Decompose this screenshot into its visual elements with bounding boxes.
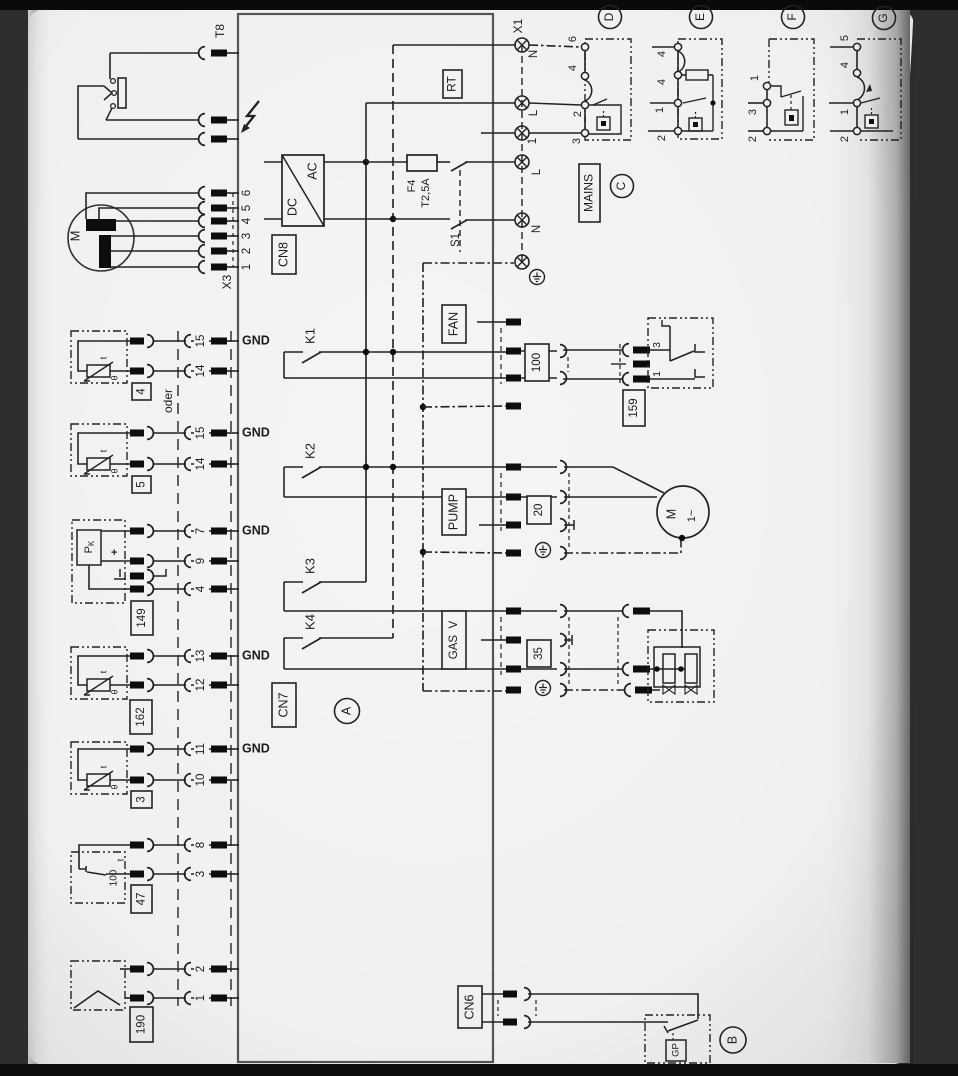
svg-text:2: 2 (241, 248, 253, 254)
pin number bg 2 (194, 960, 209, 978)
plug socket arc row 12 (147, 679, 153, 692)
switch S1 blade L pole (451, 162, 467, 171)
NTC resistor item 3 (87, 774, 110, 786)
board socket arc row 2 (185, 963, 191, 976)
svg-text:1: 1 (749, 75, 761, 81)
NTC diagonal item 162 (84, 676, 113, 695)
fan conn2 pin a (633, 347, 650, 354)
left harness dashed line 2 (230, 331, 232, 1006)
X3 row 4 pin (211, 218, 227, 225)
stub to board row 2 (227, 968, 239, 970)
connector pin plug row 4 (130, 586, 144, 593)
connector pin plug row 7 (130, 528, 144, 535)
connector pin plug row 11 (130, 746, 144, 753)
item label box 5 (132, 476, 151, 493)
svg-text:15: 15 (195, 427, 207, 440)
wire to pin row 15 (191, 432, 211, 434)
earth tap GAS corner (423, 690, 506, 692)
svg-text:C: C (614, 181, 628, 190)
X3 row 3 stub to board (227, 235, 239, 237)
CN6 connector label (458, 986, 482, 1028)
E blade (683, 98, 706, 103)
harness wire row 12 (153, 684, 186, 686)
relay K3 contact line (319, 581, 366, 583)
svg-text:1: 1 (651, 371, 663, 377)
stub to board row 14 (227, 370, 239, 372)
gas pin3 (506, 666, 521, 673)
sensor dash-dot box item 5 (71, 424, 127, 476)
X3 row 1 pin (211, 264, 227, 271)
board socket arc row 1 (185, 992, 191, 1005)
electrode symbol (74, 991, 120, 1008)
gas valve coil 1 (663, 654, 675, 683)
svg-text:GND: GND (242, 523, 270, 537)
board socket arc row 8 (185, 839, 191, 852)
fan pin4 (506, 403, 521, 410)
svg-text:S1: S1 (450, 233, 462, 247)
pin number bg 14 (194, 455, 209, 473)
board pin row 2 (211, 966, 227, 973)
pump motor circle (657, 486, 709, 538)
plug socket arc row 14 (147, 458, 153, 471)
G terminal 2 (853, 127, 860, 134)
board socket arc row 15 (185, 335, 191, 348)
sensor wire bottom item 4 (110, 370, 130, 372)
fan wire b (563, 378, 623, 380)
connector pin plug row 8 (130, 842, 144, 849)
fan conn2 arc b (623, 373, 629, 386)
sensor wire top item 4 (78, 341, 130, 371)
pin number bg 14 (194, 362, 209, 380)
sensor wire top item 162 (78, 656, 130, 685)
stat 47 wire bottom (106, 873, 130, 875)
relay K3 output line (284, 610, 520, 612)
wire to pin row 3 (191, 873, 211, 875)
G terminal 5 (853, 43, 860, 50)
stub to board row 1 (227, 997, 239, 999)
earth symbol at X1 (530, 270, 545, 285)
board socket arc row 10 (185, 774, 191, 787)
pump stub3 end (564, 520, 574, 530)
wire to pin row 14 (191, 370, 211, 372)
svg-text:X1: X1 (511, 18, 525, 33)
E junction dot (710, 100, 715, 105)
fan harness dashes (567, 357, 569, 372)
board pin row 12 (211, 682, 227, 689)
svg-text:E: E (693, 13, 707, 21)
board pin row 13 (211, 653, 227, 660)
plug socket arc row 3 (147, 868, 153, 881)
F wire t2-t3 (766, 106, 768, 128)
fan pin1 (506, 319, 521, 326)
svg-text:10: 10 (195, 774, 207, 787)
E wire stub t4 (648, 130, 674, 132)
wire gas pin1 (521, 610, 557, 612)
board socket arc row 13 (185, 650, 191, 663)
gas feed wire (650, 611, 682, 648)
connector pin plug row 12 (130, 682, 144, 689)
G bottom wire (861, 130, 893, 132)
plug socket arc row 7 (147, 525, 153, 538)
pump wire L (564, 467, 664, 493)
stub to board row 3 (227, 873, 239, 875)
relay K4 blade (302, 638, 321, 649)
connector pin plug row 14 (130, 368, 144, 375)
stub to board row 10 (227, 779, 239, 781)
GP dash-dot box (645, 1015, 710, 1063)
wire N row to circuit D dash-dot (529, 45, 581, 47)
connector pin plug row 14 (130, 461, 144, 468)
harness wire row 4 (153, 588, 186, 590)
relay K4 left vertical (283, 638, 285, 669)
GP blade (668, 1020, 698, 1031)
wire to pin row 13 (191, 655, 211, 657)
gas conn2 arc4 (625, 684, 631, 697)
svg-text:100: 100 (531, 353, 543, 372)
pump socket2 (560, 491, 566, 504)
svg-text:RT: RT (445, 75, 459, 91)
gas socket3 (560, 663, 566, 676)
harness wire row 15 (153, 340, 186, 342)
gas conn2 pin4 (635, 687, 652, 694)
fan wire a (563, 349, 623, 351)
controller board A outline (238, 14, 493, 1062)
wire pin2 to socket (521, 350, 557, 352)
svg-text:K3: K3 (302, 558, 317, 574)
plug socket arc row 15 (147, 335, 153, 348)
fan conn2 pin mid (633, 361, 650, 368)
pin number bg 11 (194, 740, 209, 758)
electrode wire row1 (125, 997, 130, 999)
circled C (611, 175, 634, 198)
board pin row 4 (211, 586, 227, 593)
svg-text:4: 4 (656, 79, 668, 85)
PK wire row7 (101, 530, 130, 532)
svg-text:3: 3 (195, 871, 207, 877)
svg-text:7: 7 (195, 528, 207, 534)
fan conn2 pin b (633, 376, 650, 383)
wire to pin row 9 (191, 560, 211, 562)
gas valve dot 2 (678, 666, 684, 672)
fan conn2 mid stub (611, 363, 626, 365)
board pin row 15 (211, 338, 227, 345)
svg-text:1: 1 (241, 264, 253, 270)
wire to pin row 12 (191, 684, 211, 686)
X3 row 1 stub to board (227, 266, 239, 268)
E wire t2-t3 (677, 78, 679, 100)
relay K2 left vertical (283, 467, 285, 497)
plug socket arc row 13 (147, 650, 153, 663)
board socket arc row 7 (185, 525, 191, 538)
stub to board row 7 (227, 530, 239, 532)
junction dot L (363, 159, 369, 165)
svg-text:DC: DC (285, 198, 299, 216)
relay K2 feed line (284, 466, 303, 468)
relay K1 feed line (284, 351, 303, 353)
sensor dash-dot box item 162 (71, 647, 127, 699)
switch S1 blade N pole (451, 220, 467, 229)
cn6 socket1 (524, 988, 530, 1001)
circled B (720, 1027, 746, 1053)
fan connector dashes (500, 328, 502, 384)
motor wire 3 (111, 235, 198, 237)
F wire t1-t2 (766, 90, 768, 100)
X3 row 5 socket arc (199, 202, 205, 215)
wire gas pin3 (521, 668, 557, 670)
gas pin2 (506, 637, 521, 644)
D terminal 3 (581, 129, 588, 136)
F bottom wire (771, 130, 803, 132)
svg-text:1~: 1~ (686, 510, 698, 523)
pin number bg 15 (194, 424, 209, 442)
wire converter to N junction (324, 218, 393, 220)
spark wire2 (78, 138, 198, 140)
fuse F4 body (407, 155, 437, 171)
pin number bg 3 (194, 865, 209, 883)
connector pin plug row 1 (130, 995, 144, 1002)
harness wire row 1 (153, 997, 186, 999)
D anticipator box (597, 111, 610, 130)
svg-text:2: 2 (572, 111, 584, 117)
K2 junction N dot (390, 464, 396, 470)
svg-text:13: 13 (195, 650, 207, 663)
svg-text:F4: F4 (406, 180, 418, 193)
board pin row 8 (211, 842, 227, 849)
K2 junction L dot (363, 464, 369, 470)
harness wire row 8 (153, 844, 186, 846)
pin number bg 4 (194, 580, 209, 598)
item label box 47 (131, 885, 152, 913)
item label box 3 (131, 791, 152, 808)
relay K3 feed line (284, 581, 303, 583)
switch body bar (118, 78, 126, 108)
T8 stub to board (227, 52, 239, 54)
board socket arc row 14 (185, 365, 191, 378)
G wire t1-t2 (856, 50, 858, 70)
motor wire 1 (111, 266, 198, 268)
sensor 47 dash-dot box (71, 852, 125, 903)
L bus vertical wire (365, 162, 367, 582)
connector pin plug row 15 (130, 338, 144, 345)
stat 47 wire top (79, 845, 130, 869)
svg-text:3: 3 (571, 138, 583, 144)
pin number bg 1 (194, 989, 209, 1007)
wire wiper left (78, 86, 104, 139)
harness wire row 14 (153, 370, 186, 372)
gas stub pin2 (481, 639, 506, 641)
G terminal 4 (853, 69, 860, 76)
F terminal 3 (763, 99, 770, 106)
S1 mechanical link dashed (459, 170, 461, 252)
cn6 harness dashes (535, 1000, 537, 1016)
svg-text:14: 14 (195, 457, 207, 470)
svg-text:5: 5 (241, 205, 253, 211)
pump earth wire (564, 540, 681, 553)
relay K1 blade (302, 352, 321, 363)
F wire stub t2 (748, 102, 763, 104)
E wire t1-t2 (677, 50, 679, 72)
wire stub left of converter top (264, 161, 282, 163)
wire to pin row 2 (191, 968, 211, 970)
X3 row 5 pin (211, 205, 227, 212)
svg-text:N: N (528, 50, 540, 58)
gas wire 1 (564, 610, 622, 612)
connector pin plug row 10 (130, 777, 144, 784)
stub to board row 13 (227, 655, 239, 657)
wire T8 down (109, 53, 111, 79)
svg-text:L: L (531, 168, 543, 175)
fan pin3 (506, 375, 521, 382)
svg-text:159: 159 (628, 398, 640, 417)
svg-text:4: 4 (195, 585, 207, 592)
X1 terminal N top (515, 38, 529, 52)
MAINS label box (579, 164, 600, 222)
sensor dash-dot box item 3 (71, 742, 127, 794)
svg-text:CN6: CN6 (462, 994, 476, 1019)
pressure switch blade (670, 351, 694, 361)
plug socket arc row 8 (147, 839, 153, 852)
earth tap PUMP wire (423, 552, 506, 553)
row576 stub (153, 569, 166, 576)
GP body box (666, 1040, 686, 1061)
svg-text:CN8: CN8 (276, 242, 290, 267)
page right torn edge (874, 0, 958, 1076)
switch contact mid (112, 91, 117, 96)
RT label box (443, 70, 462, 98)
gas valve body 2 (685, 685, 697, 694)
earth bus dash-dot vertical wire (422, 263, 424, 691)
wire terminal1 stub (481, 132, 515, 134)
left harness dashed line 1 (177, 331, 179, 1006)
relay K4 contact line (319, 637, 393, 639)
svg-text:14: 14 (195, 364, 207, 377)
pin number bg 8 (194, 836, 209, 854)
pump pin1 (506, 464, 521, 471)
E terminal 4b (674, 71, 681, 78)
gas conn2 pin1 (633, 608, 650, 615)
gas valve dash-dot box (648, 630, 714, 702)
svg-text:8: 8 (195, 842, 207, 848)
wire pin b into box (650, 378, 695, 380)
svg-text:K2: K2 (302, 443, 317, 459)
fan conn2 dashes (619, 344, 621, 385)
label box 159 (623, 390, 645, 426)
gas earth wire (564, 689, 624, 691)
board socket arc row 15 (185, 427, 191, 440)
svg-text:θ: θ (109, 468, 119, 473)
svg-text:AC: AC (305, 162, 319, 179)
earth tap FAN wire (423, 406, 506, 407)
svg-text:K4: K4 (302, 614, 317, 630)
svg-text:4: 4 (567, 65, 579, 71)
G wire t3-t4 (856, 106, 858, 128)
svg-text:5: 5 (136, 481, 148, 487)
svg-text:G: G (876, 13, 890, 22)
fan pin2 (506, 348, 521, 355)
svg-text:oder: oder (161, 389, 175, 413)
gas valve coil 2 (685, 654, 697, 683)
harness wire row 10 (153, 779, 186, 781)
wire 1 row to circuit D (529, 132, 581, 134)
D wire 2-3 (584, 108, 586, 130)
FAN label box (442, 305, 466, 343)
svg-text:θ: θ (109, 375, 119, 380)
K1 junction L dot (363, 349, 369, 355)
wire to pin row 14 (191, 463, 211, 465)
D wire 6-4 (584, 50, 586, 73)
F terminal 1 (763, 82, 770, 89)
svg-text:4: 4 (241, 217, 253, 224)
wire to pin row 8 (191, 844, 211, 846)
svg-text:162: 162 (135, 707, 147, 726)
connector pin plug row 15 (130, 430, 144, 437)
stat 47 blade (87, 872, 106, 875)
cn6 wire2 (528, 1021, 668, 1023)
pin number bg 12 (194, 676, 209, 694)
svg-text:M: M (67, 231, 82, 242)
F blade (781, 91, 801, 97)
D thermostat body (589, 105, 621, 134)
svg-text:T8: T8 (213, 24, 227, 38)
cn6 pin1 (503, 991, 517, 998)
gas conn2 arc1 (623, 605, 629, 618)
pin number bg 15 (194, 332, 209, 350)
GAS V label box (442, 611, 466, 669)
harness wire row 14 (153, 463, 186, 465)
X1 terminal L mains (515, 155, 529, 169)
board pin row 7 (211, 528, 227, 535)
CN8 connector label (272, 235, 296, 274)
pump pin2 (506, 494, 521, 501)
sensor wire top item 3 (78, 749, 130, 780)
svg-text:MAINS: MAINS (582, 174, 596, 212)
spark row1 stub to board (227, 119, 239, 121)
pump wire N (564, 496, 657, 498)
GP link dashed (672, 1033, 674, 1040)
NTC resistor item 5 (87, 458, 110, 470)
sensor dash-dot box item 4 (71, 331, 127, 383)
D thermostat blade (593, 99, 607, 105)
svg-text:1: 1 (527, 138, 539, 144)
stub to board row 8 (227, 844, 239, 846)
NTC resistor item 4 (87, 365, 110, 377)
circuit F dash-dot box (769, 39, 814, 140)
pump socket1 (560, 461, 566, 474)
svg-text:190: 190 (136, 1015, 148, 1034)
svg-text:6: 6 (241, 190, 253, 196)
svg-text:θ: θ (109, 784, 119, 789)
G terminal 1 (853, 99, 860, 106)
label box 100 (525, 344, 549, 381)
cn6 socket2 (524, 1016, 530, 1029)
X3 row 1 socket arc (199, 261, 205, 274)
AC/DC converter diagonal (282, 155, 324, 226)
plug socket arc row 14 (147, 365, 153, 378)
spark row2 pin (211, 136, 227, 143)
cn6 stub2 (482, 1021, 503, 1023)
svg-text:9: 9 (195, 558, 207, 564)
page left shade (28, 9, 54, 1065)
pump stub pin3 (479, 524, 506, 526)
svg-text:+: + (111, 547, 117, 559)
circuit D dash-dot box (585, 39, 631, 140)
T8 pin (211, 50, 227, 57)
svg-text:3: 3 (241, 233, 253, 239)
sensor wire top item 5 (78, 433, 130, 464)
E right vertical (712, 75, 714, 131)
G wire stub t1 (830, 46, 853, 48)
board pin row 14 (211, 461, 227, 468)
